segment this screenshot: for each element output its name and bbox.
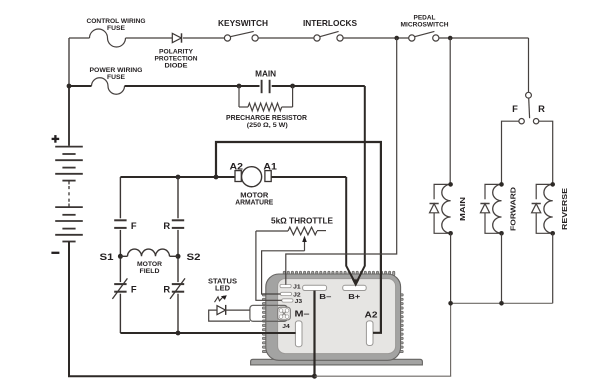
diode freewheel FORWARD <box>485 184 502 199</box>
node: junction after pedal microswitch (MAIN coil feed) <box>448 36 453 41</box>
wire: A1 to B+ left arrow prong (bold) <box>346 177 355 283</box>
wire: bus thin continuation to coil returns <box>315 375 452 377</box>
controller heatsink fins left edge <box>262 294 267 296</box>
svg-text:POLARITY: POLARITY <box>159 49 193 56</box>
node: FORWARD coil bottom <box>499 231 504 236</box>
controller heatsink fins right edge <box>398 294 403 296</box>
svg-text:5kΩ THROTTLE: 5kΩ THROTTLE <box>271 215 333 225</box>
svg-text:PEDAL: PEDAL <box>414 14 436 21</box>
pin J3 pad <box>282 299 293 302</box>
node: tie junction MAIN coil return <box>448 301 453 306</box>
svg-text:M–: M– <box>295 309 311 318</box>
wire: R column x=178 <box>177 177 179 218</box>
controller base plate <box>251 359 423 365</box>
terminal A2 bar <box>366 321 373 346</box>
svg-text:F: F <box>512 103 518 114</box>
inductor motor field winding <box>120 255 127 257</box>
svg-text:KEYSWITCH: KEYSWITCH <box>218 19 268 28</box>
wire: bottom B- bus (bold) <box>68 375 315 377</box>
diode freewheel MAIN <box>434 184 451 199</box>
svg-text:J4: J4 <box>282 324 290 330</box>
svg-text:FORWARD: FORWARD <box>509 186 518 231</box>
fuse F1 control wiring fuse <box>90 29 126 47</box>
contactor tip R lower with slash <box>172 283 184 285</box>
svg-text:J2: J2 <box>293 292 301 298</box>
svg-text:A1: A1 <box>263 161 277 172</box>
node: junction on M- line <box>176 331 181 336</box>
node: FORWARD coil top <box>499 182 504 187</box>
battery BT1 traction battery <box>68 86 70 146</box>
diode D1 polarity protection diode <box>172 33 181 42</box>
contactor tip F upper <box>114 219 126 221</box>
svg-text:FUSE: FUSE <box>107 74 125 81</box>
wire: KSI feed from keyswitch line to J1 <box>286 38 397 285</box>
wire: throttle low side to J3 <box>256 231 282 300</box>
potentiometer throttle resistor <box>256 230 288 232</box>
svg-text:B–: B– <box>319 292 331 301</box>
switch F contact <box>519 119 524 124</box>
node: precharge left junction <box>237 84 242 89</box>
wire: MAIN coil bottom drop <box>450 233 452 303</box>
label: battery + terminal <box>52 138 60 140</box>
contactor MAIN power contact <box>261 80 263 93</box>
svg-text:J1: J1 <box>293 285 301 291</box>
svg-text:CONTROL WIRING: CONTROL WIRING <box>87 18 146 25</box>
svg-text:(250 Ω, 5 W): (250 Ω, 5 W) <box>247 122 288 129</box>
switch SW3 pedal microswitch <box>409 35 415 41</box>
svg-text:LED: LED <box>215 286 230 293</box>
svg-text:F: F <box>131 220 137 231</box>
terminal B- bar <box>303 285 327 290</box>
terminal M- bar <box>295 321 302 347</box>
switch SW1 keyswitch <box>224 35 230 41</box>
LED D2 status LED <box>217 306 226 315</box>
svg-text:POWER WIRING: POWER WIRING <box>90 67 143 74</box>
node: tie junction FORWARD coil return <box>499 301 504 306</box>
wire: REVERSE coil bottom drop <box>552 233 554 303</box>
node: MAIN coil bottom <box>448 231 453 236</box>
switch SW2 interlocks <box>314 35 320 41</box>
wire: left vertical from control line to power junction <box>68 38 70 86</box>
svg-text:MOTOR: MOTOR <box>137 261 162 268</box>
contactor tip R upper <box>172 219 184 221</box>
arrowhead into B+ terminal <box>352 279 360 287</box>
svg-text:MICROSWITCH: MICROSWITCH <box>401 21 450 28</box>
resistor R1 precharge resistor bypass <box>238 86 240 107</box>
wire: F contact to FORWARD coil <box>502 121 519 182</box>
node: S1 <box>118 254 123 259</box>
svg-text:DIODE: DIODE <box>165 63 188 70</box>
node: precharge right junction <box>290 84 295 89</box>
svg-text:FUSE: FUSE <box>107 25 125 32</box>
svg-text:STATUS: STATUS <box>208 278 237 285</box>
svg-text:A2: A2 <box>230 161 244 172</box>
LED light squiggle arrow <box>215 296 224 302</box>
node: junction before pedal microswitch (KSI tap) <box>394 36 399 41</box>
svg-text:ARMATURE: ARMATURE <box>235 198 273 207</box>
connector plug into J4 <box>250 305 287 321</box>
pin J1 pad <box>280 284 291 287</box>
coil MAIN contactor coil <box>442 184 451 233</box>
svg-text:A2: A2 <box>365 310 379 319</box>
controller inner face <box>278 279 396 354</box>
fuse F2 power wiring fuse <box>92 78 125 95</box>
svg-text:REVERSE: REVERSE <box>560 188 569 230</box>
wire: A2 riser to controller A2 terminal (bold) <box>216 142 381 333</box>
wire: armature line y=177 <box>120 176 235 178</box>
svg-text:MAIN: MAIN <box>255 70 276 79</box>
svg-text:S1: S1 <box>100 252 114 262</box>
wire: power line y=86 battery to MAIN contactor <box>69 85 92 87</box>
switch R contact <box>533 119 538 124</box>
throttle wiper arrow <box>304 241 306 251</box>
label: battery - terminal <box>51 252 59 254</box>
motor M1 armature <box>242 167 262 187</box>
svg-text:MAIN: MAIN <box>458 197 467 221</box>
wire: drop to F/R selector common <box>528 38 530 92</box>
svg-text:J3: J3 <box>295 299 303 305</box>
contactor tip F lower with slash <box>114 283 126 285</box>
controller cooling teeth top edge <box>283 271 285 276</box>
wire: pedal microswitch to MAIN coil <box>449 38 451 183</box>
wire: M- line to controller M- terminal (bold) <box>120 332 295 334</box>
svg-text:R: R <box>163 284 170 295</box>
connector keyed face with X <box>278 307 291 320</box>
svg-text:F: F <box>131 284 137 295</box>
node: S2 <box>176 254 181 259</box>
wire: coil return tie line <box>451 302 553 304</box>
controller outer shell <box>266 274 401 360</box>
svg-text:B+: B+ <box>348 292 361 301</box>
node: B- junction on bus <box>312 374 317 379</box>
node: MAIN coil top <box>448 182 453 187</box>
svg-text:R: R <box>163 220 170 231</box>
svg-text:S2: S2 <box>187 252 201 262</box>
svg-text:PRECHARGE RESISTOR: PRECHARGE RESISTOR <box>226 115 307 122</box>
wire: B- terminal to bus (bold) <box>313 291 315 377</box>
wire: control line top horizontal y=38 <box>69 37 90 39</box>
svg-text:FIELD: FIELD <box>140 268 160 275</box>
switch F/R selector common contact <box>526 92 532 98</box>
coil REVERSE contactor coil <box>544 184 553 233</box>
node: junction armature A2 riser x=216 <box>214 175 219 180</box>
node: power junction at battery column <box>67 84 72 89</box>
wire: R contact to REVERSE coil <box>539 121 553 182</box>
node: REVERSE coil bottom <box>550 231 555 236</box>
node: REVERSE coil top <box>550 182 555 187</box>
wire: wiper to J2 <box>262 251 305 294</box>
svg-text:PROTECTION: PROTECTION <box>155 56 198 63</box>
wire: LED anode loop to connector <box>209 310 250 321</box>
svg-text:INTERLOCKS: INTERLOCKS <box>303 19 358 28</box>
wire: MAIN contact output to B+ right arrow prong (bold) <box>293 85 365 87</box>
battery middle dashed gap <box>68 181 70 185</box>
terminal B+ bar <box>343 285 367 290</box>
svg-text:R: R <box>538 103 545 114</box>
wire: FORWARD coil bottom drop <box>501 233 503 303</box>
pin J2 pad <box>280 292 291 295</box>
coil FORWARD contactor coil <box>493 184 502 233</box>
wire: battery negative to bottom bus <box>68 242 70 377</box>
diode freewheel REVERSE <box>536 184 553 199</box>
wire: F column x=120.4 <box>119 177 121 218</box>
wire: LED cathode to connector <box>226 309 250 311</box>
node: junction field branch x=178 <box>176 175 181 180</box>
